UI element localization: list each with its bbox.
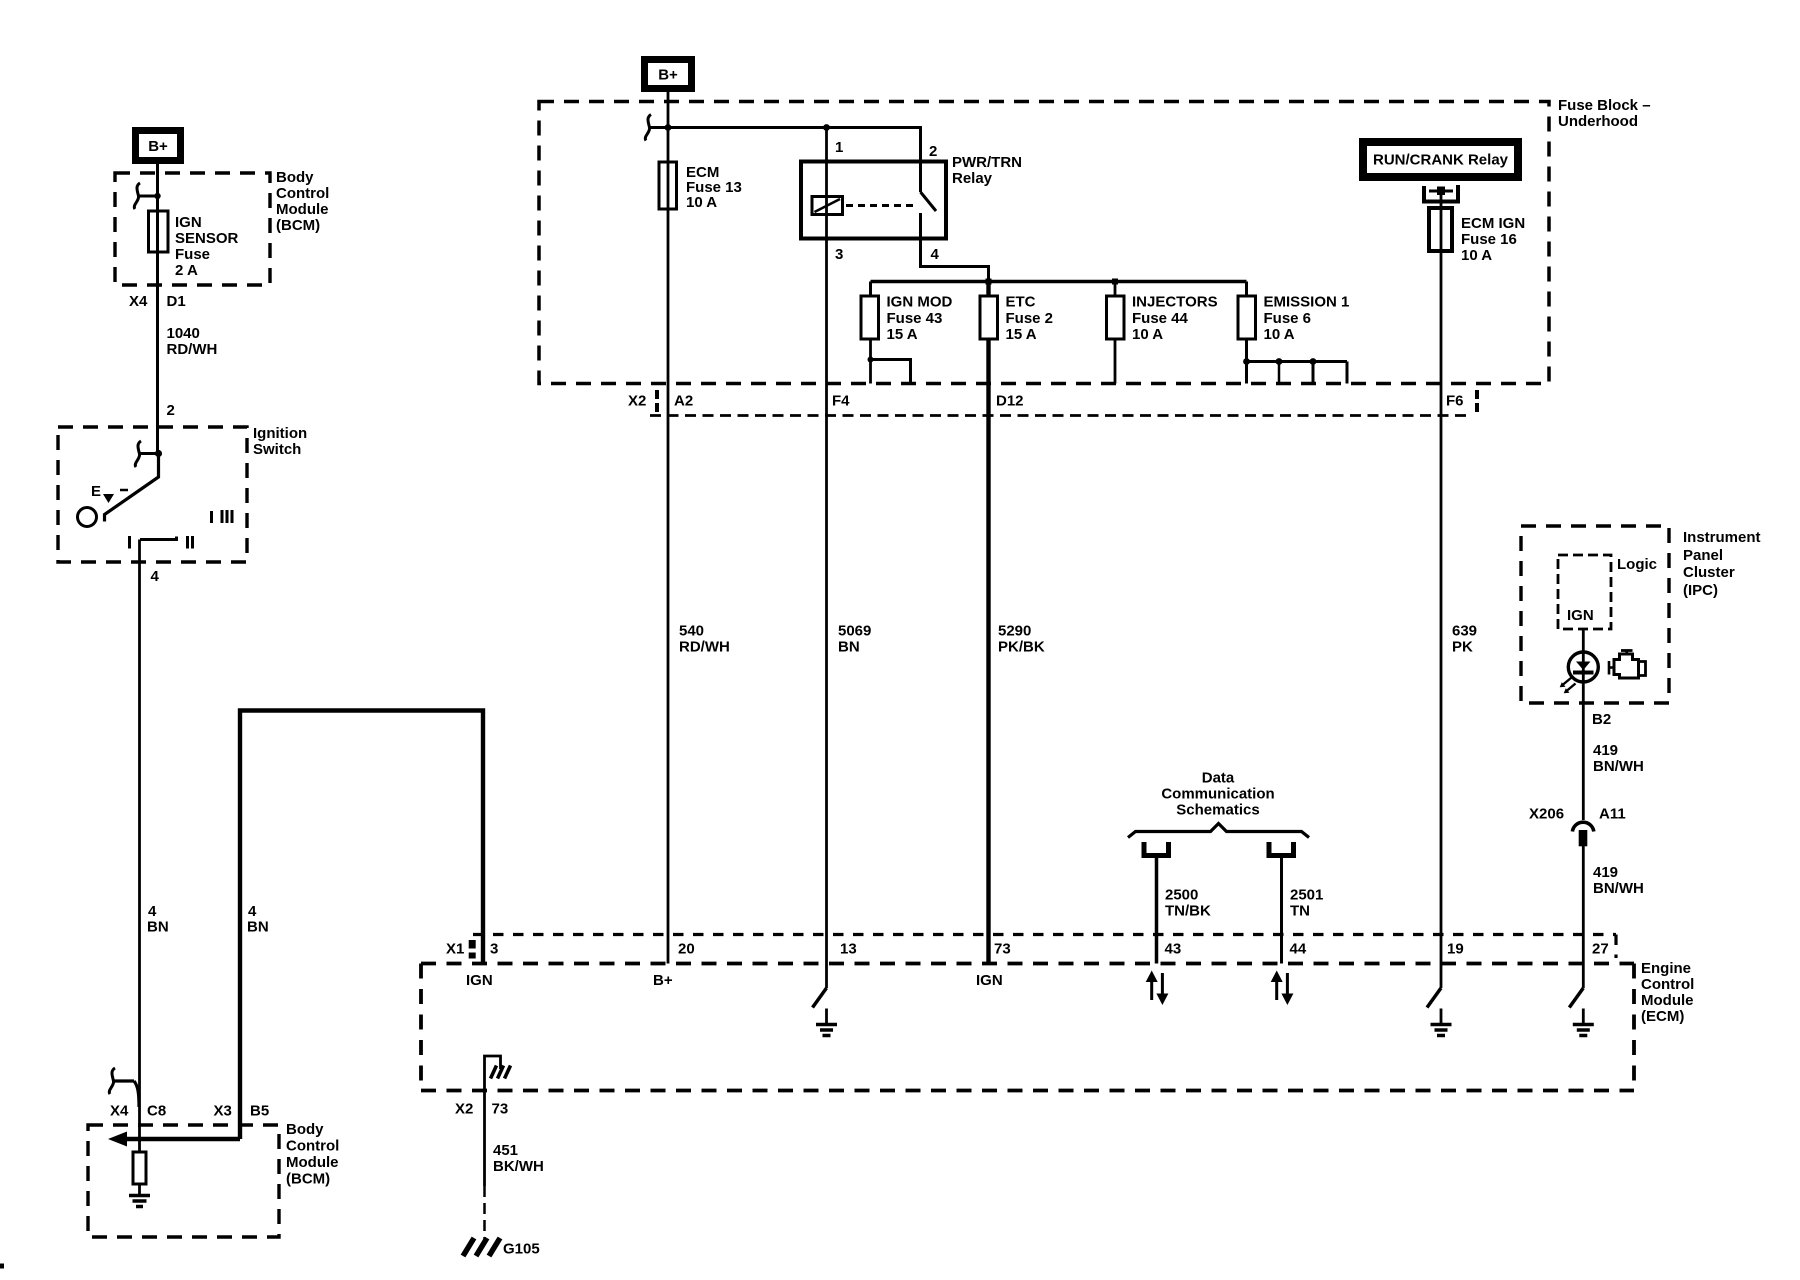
position marks I III bbox=[210, 510, 234, 523]
fuse block connector labels bbox=[628, 393, 1464, 410]
svg-text:(IPC): (IPC) bbox=[1683, 582, 1718, 599]
svg-text:639: 639 bbox=[1452, 623, 1477, 640]
svg-text:451: 451 bbox=[493, 1142, 518, 1159]
svg-text:BN: BN bbox=[838, 639, 860, 656]
svg-text:X2: X2 bbox=[628, 393, 646, 410]
ECM IGN fuse label bbox=[1461, 215, 1525, 264]
svg-text:2 A: 2 A bbox=[175, 262, 198, 279]
ECM internal chassis ground bbox=[491, 1066, 511, 1079]
svg-text:BN: BN bbox=[247, 919, 269, 936]
svg-text:4: 4 bbox=[248, 903, 257, 920]
connector terminal in ignition switch (hook) bbox=[135, 441, 162, 467]
wire logic to LED and IPC pin B2 bbox=[1582, 629, 1585, 820]
svg-text:X4: X4 bbox=[129, 293, 148, 310]
svg-text:Underhood: Underhood bbox=[1558, 113, 1638, 130]
band tick after X2 bbox=[655, 390, 659, 412]
ECM bottom edge bbox=[421, 1089, 1634, 1093]
fuse IGN SENSOR 2A bbox=[149, 211, 169, 252]
svg-text:419: 419 bbox=[1593, 742, 1618, 759]
svg-text:Fuse 2: Fuse 2 bbox=[1006, 310, 1054, 327]
ECM heavy dashed band line bbox=[421, 962, 1634, 966]
IGN MOD fuse output wire bbox=[869, 339, 872, 384]
svg-text:2: 2 bbox=[167, 402, 175, 419]
svg-text:PWR/TRN: PWR/TRN bbox=[952, 154, 1022, 171]
wire label 5069 BN bbox=[838, 623, 871, 656]
ECM fuse 13 label bbox=[686, 164, 742, 211]
svg-text:INJECTORS: INJECTORS bbox=[1132, 294, 1218, 311]
wire label 540 RD/WH bbox=[679, 623, 730, 656]
wire 2501 to ECM pin 44 bbox=[1280, 857, 1283, 964]
svg-text:TN/BK: TN/BK bbox=[1165, 903, 1211, 920]
relay pin1/pin3 wire through coil down to ECM pin 13 bbox=[825, 128, 828, 964]
svg-text:D1: D1 bbox=[167, 293, 186, 310]
svg-text:BN: BN bbox=[147, 919, 169, 936]
wire ignition pin 4 down to BCM (4 BN) bbox=[138, 540, 141, 1153]
svg-text:Fuse Block –: Fuse Block – bbox=[1558, 97, 1651, 114]
horizontal wire B+ to relay pin 2 bbox=[650, 126, 921, 129]
svg-text:X2: X2 bbox=[455, 1101, 473, 1118]
svg-text:IGN: IGN bbox=[976, 972, 1003, 989]
wire label 2500 TN/BK bbox=[1165, 887, 1211, 920]
svg-text:1040: 1040 bbox=[167, 325, 200, 342]
svg-text:27: 27 bbox=[1592, 941, 1609, 958]
svg-text:44: 44 bbox=[1290, 941, 1307, 958]
relay pin 2 wire bbox=[919, 126, 922, 192]
thick wire with left arrow inside BCM bbox=[108, 1132, 240, 1147]
svg-text:IGN: IGN bbox=[175, 214, 202, 231]
svg-text:5069: 5069 bbox=[838, 623, 871, 640]
wire label 451 BK/WH bbox=[493, 1142, 544, 1175]
ignition switch label bbox=[253, 425, 307, 458]
svg-text:73: 73 bbox=[994, 941, 1011, 958]
logic box bbox=[1558, 555, 1611, 629]
svg-text:RUN/CRANK Relay: RUN/CRANK Relay bbox=[1373, 152, 1509, 169]
svg-text:PK: PK bbox=[1452, 639, 1473, 656]
LED triangle bbox=[1576, 662, 1591, 671]
horizontal brace bbox=[1128, 824, 1309, 838]
svg-text:Relay: Relay bbox=[952, 170, 993, 187]
BCM label (top-left) bbox=[276, 169, 329, 234]
ECM pin 44 serial data arrows bbox=[1271, 971, 1294, 1006]
serial data connector (2500) bbox=[1144, 842, 1169, 856]
svg-text:B+: B+ bbox=[148, 138, 168, 155]
position marks I ... II with contact bar bbox=[128, 536, 194, 549]
serial data connector (2501) bbox=[1269, 842, 1294, 856]
svg-text:Module: Module bbox=[1641, 992, 1694, 1009]
battery feed B+ box (center) bbox=[641, 56, 695, 92]
svg-text:10 A: 10 A bbox=[686, 194, 717, 211]
svg-text:10 A: 10 A bbox=[1264, 326, 1295, 343]
wire 2500 to ECM pin 43 bbox=[1155, 857, 1159, 964]
fuse bus from relay pin 4 bbox=[871, 280, 1247, 283]
svg-text:B5: B5 bbox=[250, 1103, 269, 1120]
svg-text:419: 419 bbox=[1593, 864, 1618, 881]
wire label 1040 RD/WH bbox=[167, 325, 218, 358]
relay coil-contact dashed link bbox=[846, 204, 917, 207]
svg-text:Instrument: Instrument bbox=[1683, 529, 1761, 546]
fuse ECM Fuse 13 10A bbox=[659, 162, 677, 209]
page corner mark bbox=[0, 1264, 4, 1269]
ECM right edge bbox=[1632, 964, 1636, 1091]
relay coil bbox=[812, 197, 843, 215]
svg-text:20: 20 bbox=[678, 941, 695, 958]
svg-text:Fuse 44: Fuse 44 bbox=[1132, 310, 1189, 327]
fuse INJECTORS Fuse 44 10A bbox=[1107, 296, 1125, 339]
ETC fuse label bbox=[1006, 294, 1054, 344]
svg-text:Fuse 6: Fuse 6 bbox=[1264, 310, 1312, 327]
ECM pin 13 internal switch to ground bbox=[813, 964, 838, 1036]
svg-text:RD/WH: RD/WH bbox=[679, 639, 730, 656]
svg-text:2: 2 bbox=[929, 143, 937, 160]
svg-text:IGN: IGN bbox=[1567, 607, 1594, 624]
svg-text:X206: X206 bbox=[1529, 806, 1564, 823]
fuse ETC Fuse 2 15A bbox=[980, 296, 998, 339]
wire label 2501 TN bbox=[1290, 887, 1323, 920]
IGN SENSOR fuse label bbox=[175, 214, 239, 279]
svg-text:Control: Control bbox=[276, 185, 329, 202]
svg-text:BN/WH: BN/WH bbox=[1593, 758, 1644, 775]
junction at relay pin 1 bbox=[823, 124, 830, 131]
ignition switch box bbox=[58, 427, 247, 562]
svg-text:Panel: Panel bbox=[1683, 547, 1723, 564]
LED light arrows bbox=[1560, 678, 1576, 694]
svg-text:4: 4 bbox=[148, 903, 157, 920]
svg-text:X3: X3 bbox=[214, 1103, 232, 1120]
wire bus to IGN MOD fuse bbox=[869, 282, 872, 297]
ignition switch contact circle bbox=[78, 508, 97, 527]
RUN/CRANK relay output connector bbox=[1424, 185, 1458, 202]
ECM pin 19 internal switch to ground bbox=[1427, 964, 1452, 1036]
svg-text:2501: 2501 bbox=[1290, 887, 1323, 904]
svg-text:Control: Control bbox=[1641, 976, 1694, 993]
svg-text:BK/WH: BK/WH bbox=[493, 1158, 544, 1175]
svg-text:(ECM): (ECM) bbox=[1641, 1008, 1684, 1025]
svg-text:Cluster: Cluster bbox=[1683, 564, 1735, 581]
ECM pin 27 internal switch to ground bbox=[1569, 964, 1594, 1036]
connector terminal in BCM (hook) bbox=[134, 183, 160, 209]
body control module (BCM) box top-left bbox=[115, 173, 270, 285]
wire label 5290 PK/BK bbox=[998, 623, 1045, 656]
thick loop wire ECM X1-3 to BCM bbox=[240, 711, 483, 1140]
wire B+ down through ECM fuse 13 to A2 and ECM pin 20 bbox=[667, 92, 670, 964]
svg-text:(BCM): (BCM) bbox=[286, 1171, 330, 1188]
svg-text:10 A: 10 A bbox=[1461, 247, 1492, 264]
svg-text:BN/WH: BN/WH bbox=[1593, 880, 1644, 897]
svg-text:Module: Module bbox=[286, 1154, 339, 1171]
svg-text:4: 4 bbox=[151, 568, 160, 585]
wire label 419 BN/WH (lower) bbox=[1593, 864, 1644, 897]
svg-text:E: E bbox=[91, 483, 101, 500]
svg-text:F4: F4 bbox=[832, 393, 850, 410]
svg-text:PK/BK: PK/BK bbox=[998, 639, 1045, 656]
EMISSION 1 fuse output wire bbox=[1245, 339, 1248, 384]
wire bus to EMISSION 1 fuse bbox=[1245, 282, 1248, 297]
IPC label bbox=[1683, 529, 1761, 599]
svg-text:A2: A2 bbox=[674, 393, 693, 410]
svg-text:Communication: Communication bbox=[1161, 786, 1274, 803]
svg-text:B2: B2 bbox=[1592, 711, 1611, 728]
svg-text:B+: B+ bbox=[658, 67, 678, 84]
svg-text:IGN: IGN bbox=[466, 972, 493, 989]
wire bus to INJECTORS fuse bbox=[1114, 282, 1117, 297]
svg-text:4: 4 bbox=[931, 246, 940, 263]
ECM band tick after X1 bbox=[469, 940, 476, 959]
junction bus/ETC bbox=[986, 279, 992, 285]
svg-text:F6: F6 bbox=[1446, 393, 1464, 410]
svg-text:Fuse: Fuse bbox=[175, 246, 210, 263]
svg-text:540: 540 bbox=[679, 623, 704, 640]
relay switch blade bbox=[921, 192, 937, 211]
svg-text:Control: Control bbox=[286, 1138, 339, 1155]
svg-text:73: 73 bbox=[492, 1101, 509, 1118]
connector terminal at fuse block entry (hook) bbox=[645, 115, 671, 141]
svg-text:Logic: Logic bbox=[1617, 556, 1657, 573]
battery feed B+ box (left) bbox=[132, 127, 184, 164]
svg-text:15 A: 15 A bbox=[1006, 326, 1037, 343]
fuse EMISSION 1 Fuse 6 10A bbox=[1238, 296, 1256, 339]
ground inside BCM bbox=[129, 1184, 150, 1207]
fuse block label bbox=[1558, 97, 1651, 130]
svg-text:EMISSION 1: EMISSION 1 bbox=[1264, 294, 1350, 311]
svg-text:ECM IGN: ECM IGN bbox=[1461, 215, 1525, 232]
svg-text:Ignition: Ignition bbox=[253, 425, 307, 442]
svg-text:B+: B+ bbox=[653, 972, 673, 989]
wire ECM X2-73 to G105 (solid) bbox=[483, 1091, 486, 1187]
svg-text:10 A: 10 A bbox=[1132, 326, 1163, 343]
svg-text:Body: Body bbox=[286, 1121, 324, 1138]
fuse IGN MOD Fuse 43 15A bbox=[861, 296, 879, 339]
svg-text:Fuse 43: Fuse 43 bbox=[887, 310, 943, 327]
LED indicator circle bbox=[1568, 652, 1598, 682]
body control module (BCM) box bottom bbox=[88, 1125, 279, 1237]
EMISSION 1 fuse label bbox=[1264, 294, 1350, 344]
ECM label bbox=[1641, 960, 1694, 1025]
svg-text:15 A: 15 A bbox=[887, 326, 918, 343]
wire to G105 (dashed) bbox=[483, 1186, 486, 1240]
fuse ECM IGN Fuse 16 10A bbox=[1429, 208, 1452, 251]
ECM pin 43 serial data arrows bbox=[1146, 971, 1169, 1006]
pin labels X4 / D1 bbox=[129, 293, 186, 310]
fuse block underhood box bbox=[539, 102, 1549, 384]
ECM pin labels bbox=[446, 941, 1609, 958]
ETC fuse output thick wire to D12 and ECM pin 73 bbox=[986, 339, 990, 964]
wire label 639 PK bbox=[1452, 623, 1477, 656]
BCM label (bottom) bbox=[286, 1121, 339, 1188]
check engine icon bbox=[1609, 651, 1646, 679]
PWR/TRN relay label bbox=[952, 154, 1022, 187]
EMISSION 1 splice bar bbox=[1243, 358, 1347, 383]
svg-text:SENSOR: SENSOR bbox=[175, 230, 239, 247]
svg-text:1: 1 bbox=[835, 139, 843, 156]
svg-text:C8: C8 bbox=[147, 1103, 166, 1120]
svg-text:RD/WH: RD/WH bbox=[167, 341, 218, 358]
wire label 419 BN/WH (upper) bbox=[1593, 742, 1644, 775]
ECM pin band top dotted line bbox=[473, 933, 1616, 936]
svg-text:5290: 5290 bbox=[998, 623, 1031, 640]
inline connector X206 A11 bbox=[1572, 822, 1593, 846]
svg-text:G105: G105 bbox=[503, 1241, 540, 1258]
svg-text:3: 3 bbox=[835, 246, 843, 263]
svg-text:13: 13 bbox=[840, 941, 857, 958]
connector terminal C8 (hook) bbox=[109, 1068, 139, 1107]
svg-text:Data: Data bbox=[1202, 770, 1235, 787]
wire X206 to ECM pin 27 bbox=[1582, 846, 1585, 964]
ECM left edge bbox=[419, 964, 423, 1091]
IGN MOD output branch loop bbox=[868, 357, 911, 384]
svg-text:Body: Body bbox=[276, 169, 314, 186]
ECM band right dotted tick bbox=[1614, 935, 1617, 959]
svg-text:19: 19 bbox=[1447, 941, 1464, 958]
svg-text:TN: TN bbox=[1290, 903, 1310, 920]
wire bus to ETC fuse bbox=[986, 282, 990, 297]
svg-text:Switch: Switch bbox=[253, 441, 301, 458]
svg-text:Schematics: Schematics bbox=[1176, 802, 1259, 819]
PWR/TRN relay box bbox=[801, 162, 946, 239]
INJECTORS fuse output wire bbox=[1114, 339, 1117, 384]
svg-text:IGN MOD: IGN MOD bbox=[887, 294, 953, 311]
RUN/CRANK relay box bbox=[1359, 138, 1522, 181]
svg-text:X4: X4 bbox=[110, 1103, 129, 1120]
data communication schematics label bbox=[1161, 770, 1274, 819]
svg-text:ETC: ETC bbox=[1006, 294, 1036, 311]
junction bus/INJECTORS bbox=[1112, 279, 1118, 285]
fuse block connector band second line bbox=[650, 414, 1470, 417]
ignition switch blade bbox=[105, 454, 159, 522]
LED cathode bar bbox=[1573, 671, 1594, 675]
svg-text:X1: X1 bbox=[446, 941, 464, 958]
ECM bottom pin labels X2 73 bbox=[455, 1101, 508, 1118]
ECM internal signal labels bbox=[466, 972, 1003, 989]
ECM X2-73 internal wire to chassis ground bbox=[485, 1056, 501, 1091]
pin labels X4 C8 X3 B5 bbox=[110, 1103, 269, 1120]
resistor element inside BCM bbox=[133, 1152, 146, 1184]
wire label 4 BN (left) bbox=[147, 903, 169, 936]
svg-text:2500: 2500 bbox=[1165, 887, 1198, 904]
svg-text:Fuse 16: Fuse 16 bbox=[1461, 231, 1517, 248]
svg-text:A11: A11 bbox=[1599, 806, 1626, 823]
IGN MOD fuse label bbox=[887, 294, 953, 344]
wire B+ to ignition switch (left vertical) bbox=[156, 164, 159, 454]
relay pin 4 wire to fuse bus bbox=[921, 213, 989, 282]
wire RUN/CRANK through ECM IGN fuse to F6 and ECM pin 19 bbox=[1440, 195, 1443, 964]
svg-text:D12: D12 bbox=[996, 393, 1024, 410]
svg-text:Engine: Engine bbox=[1641, 960, 1691, 977]
ground G105 bbox=[463, 1238, 500, 1256]
svg-text:Module: Module bbox=[276, 201, 329, 218]
INJECTORS fuse label bbox=[1132, 294, 1218, 344]
svg-text:(BCM): (BCM) bbox=[276, 217, 320, 234]
instrument panel cluster box bbox=[1521, 526, 1669, 703]
svg-text:43: 43 bbox=[1165, 941, 1182, 958]
svg-text:3: 3 bbox=[490, 941, 498, 958]
wire label 4 BN (loop) bbox=[247, 903, 269, 936]
band tick after F6 bbox=[1475, 390, 1479, 412]
position label E with arrow bbox=[91, 483, 128, 503]
